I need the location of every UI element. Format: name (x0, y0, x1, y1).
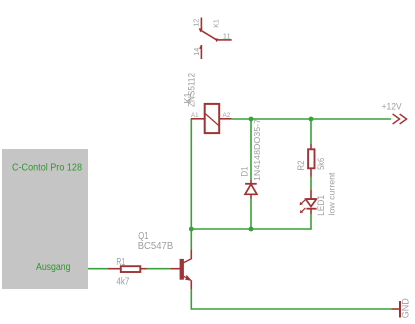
transistor Q1 (170, 249, 192, 289)
wire emitter down (190, 290, 192, 309)
wire base net R1 to Q1 (147, 268, 171, 270)
svg-text:12: 12 (194, 19, 201, 27)
wire relay A1 down to collector node (190, 119, 192, 229)
module box C-Control Pro 128 (2, 149, 88, 289)
LED LED1 (300, 190, 317, 214)
wire D1 bottom to node (250, 199, 252, 230)
resistor R1 (108, 266, 147, 272)
ground symbol GND (392, 301, 401, 318)
diode D1 (245, 180, 257, 199)
svg-text:GND: GND (401, 298, 411, 319)
relay contact K1 (199, 18, 232, 60)
svg-text:BC547B: BC547B (138, 241, 174, 252)
svg-text:11: 11 (223, 34, 231, 41)
junction +12V R2 (309, 117, 314, 122)
svg-text:+12V: +12V (382, 102, 402, 112)
wire R2 to LED1 (310, 177, 312, 191)
wire ground rail (191, 308, 392, 310)
junction D1 bottom node (249, 227, 254, 232)
svg-text:C-Contol Pro 128: C-Contol Pro 128 (12, 163, 82, 174)
svg-text:Ausgang: Ausgang (36, 262, 71, 273)
wire +12V to R2 (310, 119, 312, 144)
junction collector node (189, 227, 194, 232)
svg-text:K1: K1 (214, 19, 221, 28)
wire LED1 to collector rail (310, 214, 312, 230)
wire collector to node (190, 229, 192, 249)
svg-text:1N4148DO35-7: 1N4148DO35-7 (252, 119, 262, 181)
svg-text:ZNS5112: ZNS5112 (186, 73, 196, 107)
svg-text:14: 14 (194, 48, 201, 56)
resistor R2 (308, 144, 314, 177)
svg-text:A2: A2 (223, 112, 231, 119)
supply symbol +12V (393, 114, 407, 124)
relay coil K1 (191, 104, 232, 133)
svg-text:4k7: 4k7 (116, 277, 129, 288)
wire base net from box to R1 (88, 268, 108, 270)
wire collector rail (191, 228, 311, 230)
svg-text:R2: R2 (296, 161, 306, 171)
svg-text:D1: D1 (240, 167, 250, 177)
svg-text:LED1: LED1 (316, 195, 326, 216)
svg-text:5k6: 5k6 (316, 158, 326, 170)
svg-text:low current: low current (328, 172, 337, 216)
junction +12V D1 (249, 117, 254, 122)
svg-text:A1: A1 (191, 112, 199, 119)
svg-text:R1: R1 (116, 257, 125, 268)
wire A2 to +12V rail (232, 118, 391, 120)
wire +12V to D1 top (250, 119, 252, 180)
